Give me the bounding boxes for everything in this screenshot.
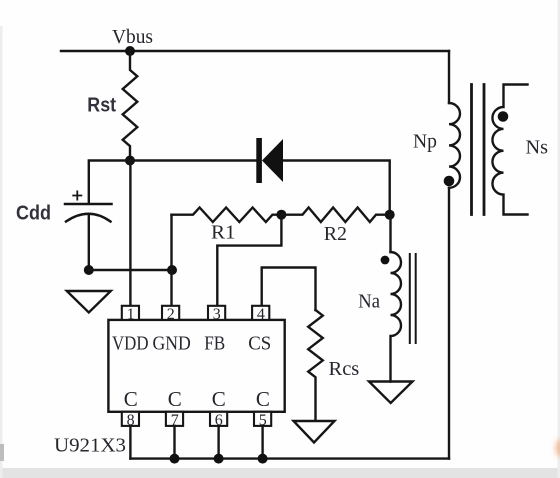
svg-text:R2: R2 xyxy=(324,223,347,245)
svg-text:2: 2 xyxy=(167,306,175,323)
pin 1 xyxy=(122,306,139,323)
pin 6 xyxy=(210,412,227,429)
pin 8 xyxy=(122,412,139,429)
page edge shading left xyxy=(0,26,3,478)
IC U1 body xyxy=(108,320,284,412)
page edge shading bottom xyxy=(0,468,560,478)
ground Cdd xyxy=(67,291,111,313)
resistor Rst xyxy=(123,51,138,161)
svg-text:Rcs: Rcs xyxy=(329,358,360,380)
wire pin1 VDD riser xyxy=(129,161,131,306)
pin 5 xyxy=(254,412,271,429)
wire FB node to pin3 xyxy=(217,215,281,306)
node bus pin6 junction xyxy=(214,454,224,464)
wire right return line xyxy=(448,188,450,459)
capacitor Cdd xyxy=(65,191,112,221)
resistor R1 xyxy=(172,208,282,223)
watermark smudge bottom-right xyxy=(555,440,560,457)
node R2 right junction xyxy=(385,210,395,220)
node ground rail junction xyxy=(167,265,177,275)
svg-text:FB: FB xyxy=(204,333,225,355)
svg-text:Na: Na xyxy=(358,291,380,313)
wire ground rail xyxy=(89,269,172,271)
resistor R2 xyxy=(281,208,389,223)
node Cdd ground junction xyxy=(84,265,94,275)
node R1 R2 FB junction xyxy=(276,210,286,220)
pin 7 xyxy=(166,412,183,429)
node Rst bottom junction xyxy=(125,156,135,166)
pin 2 xyxy=(162,306,179,323)
winding Na xyxy=(391,252,402,382)
wire pin6 drop xyxy=(217,426,219,459)
wire diode anode to R2 right node xyxy=(283,161,390,215)
svg-text:R1: R1 xyxy=(211,222,236,244)
svg-text:3: 3 xyxy=(213,306,221,323)
transformer secondary Ns xyxy=(492,85,527,215)
node Na phase dot xyxy=(381,256,390,265)
wire diode cathode lead xyxy=(130,159,257,161)
wire pin5 drop xyxy=(261,426,263,459)
resistor Rcs xyxy=(308,310,323,421)
svg-text:CS: CS xyxy=(248,333,271,355)
svg-text:4: 4 xyxy=(257,306,265,323)
node Np phase dot xyxy=(444,176,455,187)
wire Cdd bottom lead xyxy=(88,216,90,270)
svg-text:C: C xyxy=(256,387,270,411)
page edge mark bottom-left xyxy=(0,444,4,461)
svg-text:C: C xyxy=(212,387,226,411)
svg-text:VDD: VDD xyxy=(112,333,149,355)
node bus pin7 junction xyxy=(170,454,180,464)
wire pin2 GND riser xyxy=(170,215,172,306)
ground Rcs xyxy=(294,421,335,443)
svg-text:Cdd: Cdd xyxy=(16,203,51,225)
node Ns phase dot xyxy=(498,111,509,122)
wire top Vbus rail xyxy=(61,50,449,52)
svg-text:Vbus: Vbus xyxy=(112,26,153,48)
svg-text:C: C xyxy=(124,387,138,411)
diode D1 xyxy=(256,138,283,183)
node Vbus junction dot xyxy=(125,46,135,56)
svg-text:U921X3: U921X3 xyxy=(54,435,126,457)
wire pin8 drop xyxy=(129,426,131,459)
core lines Na xyxy=(410,254,416,343)
wire pin7 drop xyxy=(173,426,175,459)
svg-text:C: C xyxy=(168,387,182,411)
wire Rst node to Cdd top xyxy=(89,161,130,204)
transformer primary Np xyxy=(449,103,460,188)
wire bottom bus xyxy=(130,457,449,459)
svg-text:Ns: Ns xyxy=(526,137,549,159)
wire Np top lead xyxy=(448,51,450,103)
pin 4 xyxy=(252,306,269,323)
ground Na xyxy=(369,382,413,404)
svg-text:GND: GND xyxy=(153,333,191,355)
wire Na top lead xyxy=(389,215,392,252)
transformer core xyxy=(472,85,485,215)
pin 3 xyxy=(208,306,225,323)
svg-text:Rst: Rst xyxy=(87,95,116,117)
svg-text:1: 1 xyxy=(127,306,135,323)
svg-text:Np: Np xyxy=(413,131,437,153)
node bus pin5 junction xyxy=(258,454,268,464)
wire pin4 CS to Rcs xyxy=(262,268,316,311)
page edge shading right xyxy=(558,0,560,478)
